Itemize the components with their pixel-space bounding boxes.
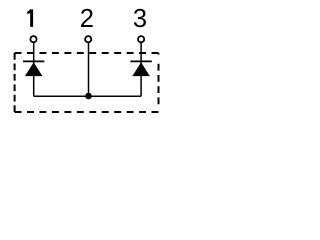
wire: terminal 3 stem (140, 43, 142, 96)
wire: terminal 1 stem (33, 43, 35, 96)
diode D2 triangle (anode) (132, 62, 150, 76)
terminal 3 circle (138, 36, 144, 42)
diode D1 triangle (anode) (25, 62, 43, 76)
wire: terminal 2 stem (88, 43, 90, 96)
svg-text:3: 3 (133, 5, 147, 33)
dashed package outline: right edge (158, 53, 160, 112)
wire: common anode bus (34, 95, 141, 97)
svg-text:2: 2 (80, 5, 94, 33)
pin label 1 (27, 9, 33, 27)
dashed package outline: bottom edge (15, 111, 159, 113)
junction dot (node 2) (85, 93, 92, 100)
terminal 1 circle (30, 36, 36, 42)
terminal 2 circle (85, 36, 91, 42)
diode D2 cathode bar (130, 60, 151, 62)
diode D1 cathode bar (23, 60, 44, 62)
dashed package outline: top edge (15, 52, 159, 54)
dashed package outline: left edge (14, 53, 16, 112)
